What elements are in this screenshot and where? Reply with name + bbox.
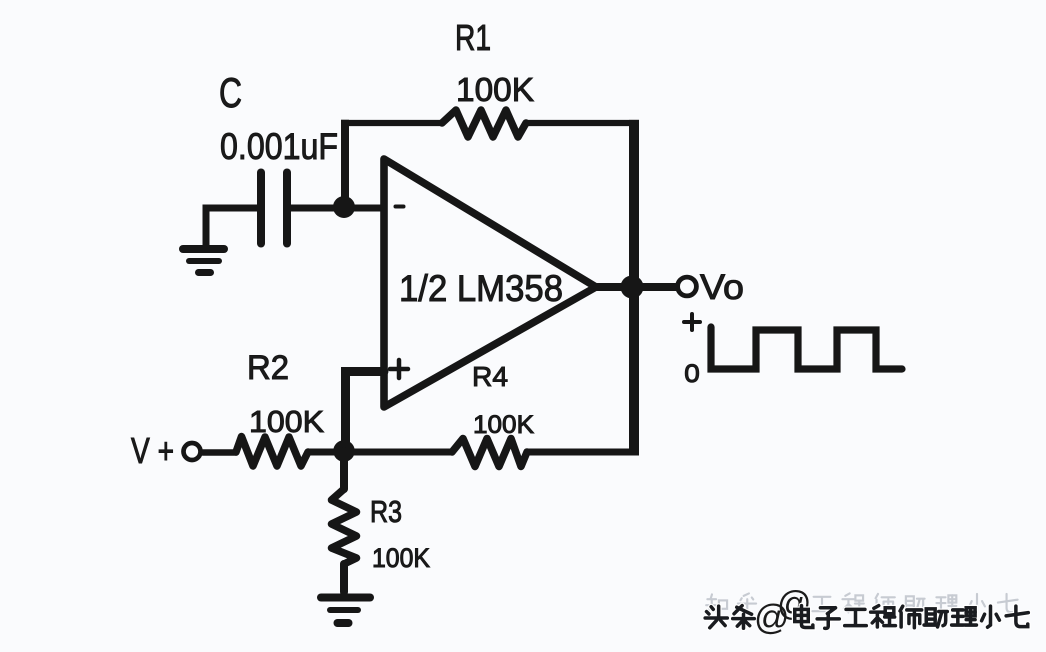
svg-text:R2: R2 <box>247 349 289 387</box>
terminal Vo open circle <box>678 277 697 296</box>
wire: right vertical feedback bus x=634 <box>629 120 639 455</box>
svg-text:0.001uF: 0.001uF <box>220 126 338 167</box>
op-amp inverting input marker - <box>396 205 404 209</box>
wire: node C down to R3 <box>340 451 348 489</box>
svg-text:o: o <box>684 352 700 389</box>
resistor R3 (vertical zigzag) <box>332 489 357 564</box>
resistor R2 (zigzag) <box>236 437 308 467</box>
wire: vertical from node A up to top feedback rail <box>341 120 349 207</box>
svg-text:100K: 100K <box>473 411 534 439</box>
svg-text:C: C <box>219 69 242 116</box>
wire: R1 right to top-right corner <box>526 120 639 126</box>
svg-text:100K: 100K <box>372 543 430 573</box>
watermark dark: 头条 @电子工程师助理小七 (white halo pass) <box>705 606 1028 629</box>
node B output junction dot <box>621 276 644 299</box>
resistor R1 (zigzag) <box>442 110 526 137</box>
wire: node C up to op-amp + input <box>346 372 385 449</box>
wire: R3 to ground GND2 <box>340 564 348 592</box>
capacitor C right plate <box>283 173 291 244</box>
capacitor C left plate <box>257 173 265 244</box>
op-amp U1 triangle 1/2 LM358 <box>384 159 596 407</box>
svg-text:R4: R4 <box>472 361 508 392</box>
waveform plus level marker <box>684 314 700 330</box>
wire: R2 to node C <box>308 449 345 456</box>
wire: node C to R4 <box>345 449 452 456</box>
wire: R4 to right feedback bus <box>527 449 639 456</box>
ground GND2 (below R3) <box>321 594 370 602</box>
svg-text:R1: R1 <box>455 17 491 58</box>
wire: top feedback rail left segment to R1 <box>341 120 442 126</box>
svg-text:V +: V + <box>131 430 174 471</box>
op-amp non-inverting input marker + <box>390 360 408 378</box>
svg-text:1/2 LM358: 1/2 LM358 <box>399 268 563 309</box>
watermark dark ink pass <box>705 606 1028 629</box>
wire: ground stub to C left plate <box>206 208 261 246</box>
svg-text:Vo: Vo <box>700 268 744 307</box>
waveform square wave <box>711 327 902 369</box>
wire: C right plate to node A <box>287 205 384 212</box>
terminal V+ open circle <box>184 443 201 460</box>
wire: V+ terminal to R2 <box>203 449 236 456</box>
svg-text:R3: R3 <box>370 494 402 529</box>
svg-text:100K: 100K <box>249 404 324 439</box>
resistor R4 (zigzag) <box>452 439 527 467</box>
wire: op-amp output to terminal Vo <box>597 283 676 291</box>
node A junction dot (inverting input) <box>333 196 355 218</box>
watermark light: 知乎 @工程师助理小七 <box>706 593 1017 614</box>
svg-text:@: @ <box>754 598 790 637</box>
node C junction dot (non-inverting divider) <box>333 440 355 462</box>
svg-text:100K: 100K <box>456 71 534 108</box>
ground GND1 (below C input) <box>183 245 224 253</box>
